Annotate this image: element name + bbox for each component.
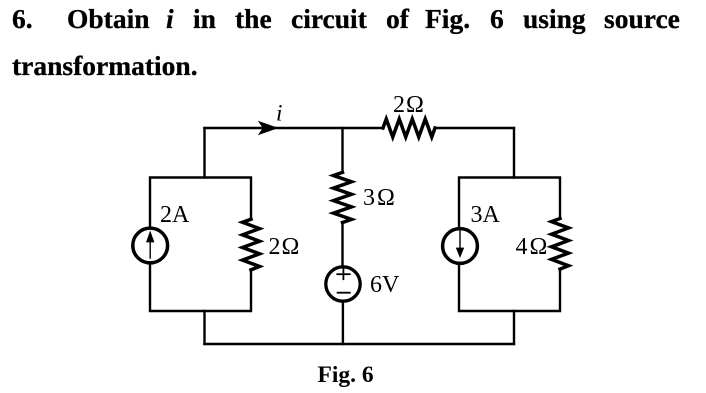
svg-text:Ω: Ω bbox=[530, 234, 548, 260]
svg-text:4: 4 bbox=[516, 234, 528, 260]
svg-text:i: i bbox=[276, 101, 282, 126]
svg-text:2A: 2A bbox=[160, 202, 190, 228]
svg-text:3: 3 bbox=[363, 185, 375, 211]
svg-text:2: 2 bbox=[269, 234, 281, 260]
svg-text:Ω: Ω bbox=[282, 234, 300, 260]
svg-text:3A: 3A bbox=[471, 202, 501, 228]
svg-text:Ω: Ω bbox=[377, 185, 395, 211]
svg-text:Ω: Ω bbox=[406, 92, 424, 118]
svg-text:6V: 6V bbox=[370, 272, 400, 298]
svg-text:2: 2 bbox=[393, 92, 405, 118]
svg-text:Fig. 6: Fig. 6 bbox=[318, 362, 374, 388]
